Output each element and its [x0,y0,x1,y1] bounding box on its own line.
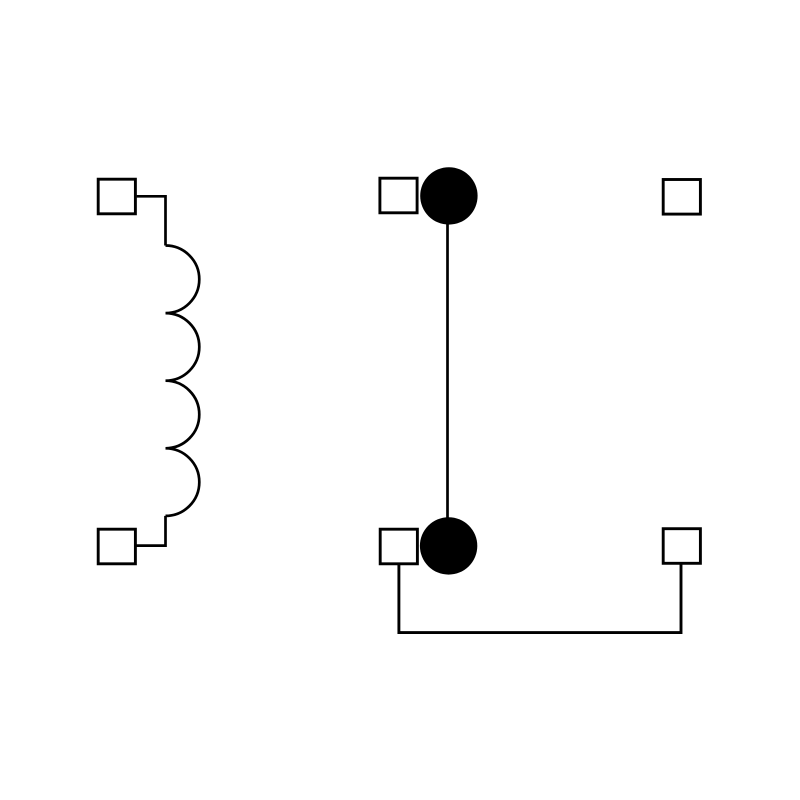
terminal pad A1 (top-left) [98,179,135,214]
coil L1 (4 semicircular humps) [166,246,200,516]
terminal pad A2 (bottom-left) [98,529,135,564]
wire: bottom-middle pad down, across, up to bottom-right pad [399,564,681,633]
contact dot (top) [420,167,477,224]
wire: coil bottom to bottom-left pad [137,516,166,546]
terminal pad 12 (bottom-middle) [380,529,417,564]
terminal pad 14 (bottom-right) [663,529,700,564]
terminal pad 24 (top-right, unconnected) [663,180,700,215]
wire: movable-contact link between dots [446,196,449,546]
terminal pad 11 (top-middle) [380,178,417,213]
contact dot (bottom) [420,517,477,574]
wire: top-left pad to coil top [137,196,166,245]
